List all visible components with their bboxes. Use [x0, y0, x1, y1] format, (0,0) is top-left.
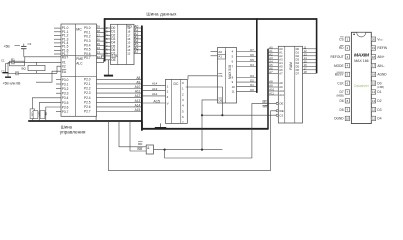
svg-text:P0.7: P0.7 — [84, 56, 91, 60]
wire address bus riser to RAM — [267, 49, 269, 130]
svg-text:A2: A2 — [269, 52, 273, 56]
svg-text:A5: A5 — [279, 64, 283, 68]
svg-text:14: 14 — [304, 56, 307, 60]
RAM pin CS — [276, 114, 278, 116]
svg-text:A0: A0 — [269, 45, 273, 49]
svg-text:A0: A0 — [279, 47, 283, 51]
svg-text:12: 12 — [127, 52, 131, 56]
svg-text:A2: A2 — [279, 54, 283, 58]
svg-text:P2.6: P2.6 — [84, 105, 91, 109]
ground under R1 — [3, 72, 9, 74]
svg-text:15: 15 — [304, 59, 307, 63]
MAX166 right pins — [371, 37, 387, 121]
wire X1 — [14, 61, 61, 63]
svg-text:17: 17 — [372, 64, 375, 68]
wire WR to gate — [130, 122, 146, 151]
svg-text:CS: CS — [339, 37, 343, 41]
svg-text:CLK: CLK — [337, 81, 344, 85]
svg-text:A1: A1 — [269, 49, 273, 53]
svg-text:управления: управления — [60, 130, 86, 135]
svg-text:A14: A14 — [135, 103, 141, 107]
svg-text:A4: A4 — [279, 61, 283, 65]
wire data bus drop right to RAM — [316, 18, 318, 73]
svg-text:A10: A10 — [269, 88, 274, 92]
svg-text:20: 20 — [372, 37, 375, 41]
svg-text:11: 11 — [232, 89, 235, 93]
svg-text:A3: A3 — [279, 57, 283, 61]
wire RD to gate — [119, 122, 146, 147]
svg-text:+5В: +5В — [4, 45, 11, 49]
MC port P0 pin labels P0.0-P0.7 — [84, 26, 91, 60]
svg-text:A15: A15 — [135, 108, 141, 112]
svg-text:P2.7: P2.7 — [84, 110, 91, 114]
svg-text:A8: A8 — [136, 76, 140, 80]
svg-text:D2: D2 — [377, 99, 381, 103]
svg-text:D7: D7 — [250, 48, 254, 52]
wires P0 to AD bus — [97, 28, 105, 58]
wire control bus horizontal — [28, 120, 142, 122]
RG data inputs D0-D7 — [111, 26, 115, 55]
svg-text:CS: CS — [218, 74, 222, 78]
svg-text:A12: A12 — [135, 94, 141, 98]
svg-text:A13: A13 — [135, 99, 141, 103]
svg-text:A5: A5 — [269, 63, 273, 67]
wire AD0-AD7 bus vertical — [104, 18, 106, 61]
svg-text:A7: A7 — [269, 70, 273, 74]
svg-text:WE: WE — [279, 109, 284, 113]
ground under DC — [160, 123, 162, 127]
svg-text:D6: D6 — [250, 53, 254, 57]
svg-text:A11: A11 — [135, 90, 141, 94]
wire EA select — [36, 71, 61, 82]
wire P3.4 to control bus — [32, 98, 61, 120]
svg-text:A9: A9 — [269, 84, 273, 88]
svg-text:P2.4: P2.4 — [84, 96, 91, 100]
svg-text:14: 14 — [372, 90, 375, 94]
svg-text:A8: A8 — [269, 80, 273, 84]
svg-text:D5: D5 — [340, 108, 344, 112]
wire reset node to RST — [24, 56, 61, 58]
pin 1 marker dot — [353, 34, 355, 36]
svg-text:P3.0: P3.0 — [62, 78, 69, 82]
DC outputs 0-7 — [182, 81, 184, 125]
svg-text:P2.3: P2.3 — [84, 91, 91, 95]
svg-text:A13: A13 — [152, 87, 158, 91]
svg-text:D7: D7 — [296, 71, 300, 75]
svg-text:MAXIM: MAXIM — [354, 53, 370, 59]
svg-text:OE: OE — [111, 58, 116, 62]
RAM data pins D0-D7 — [296, 45, 317, 75]
svg-text:D2: D2 — [296, 54, 300, 58]
svg-text:P3.2: P3.2 — [62, 87, 69, 91]
svg-text:A6: A6 — [269, 66, 273, 70]
svg-text:P3.4: P3.4 — [62, 96, 69, 100]
svg-text:OE: OE — [218, 98, 222, 102]
svg-text:A10: A10 — [279, 89, 284, 93]
svg-text:D0: D0 — [296, 47, 300, 51]
wire X2 — [18, 72, 57, 74]
svg-text:ALC: ALC — [76, 61, 83, 65]
signal label box 2 — [33, 111, 38, 119]
svg-text:DGND: DGND — [334, 117, 344, 121]
MAX508 data pins lower group — [232, 74, 257, 93]
svg-text:AIN–: AIN– — [377, 64, 384, 68]
wires P3 stubs — [56, 79, 61, 111]
svg-text:13: 13 — [372, 99, 375, 103]
svg-text:A7: A7 — [279, 71, 283, 75]
wires address lines into DC — [142, 84, 166, 86]
svg-text:P3.6: P3.6 — [62, 105, 69, 109]
svg-text:BUSY: BUSY — [335, 73, 345, 77]
svg-text:A14: A14 — [152, 82, 158, 86]
wire WR long to RAM WE — [108, 111, 276, 171]
wires RG outputs to address bus labels A0-A7 — [134, 25, 141, 54]
svg-text:P3.7: P3.7 — [62, 110, 69, 114]
svg-text:12: 12 — [304, 49, 307, 53]
svg-text:P2.1: P2.1 — [84, 82, 91, 86]
RAM pin WE — [276, 110, 278, 112]
svg-text:A12: A12 — [152, 92, 158, 96]
svg-text:D5: D5 — [296, 64, 300, 68]
svg-text:D2: D2 — [250, 79, 254, 83]
svg-text:Datasheet: Datasheet — [354, 84, 369, 88]
wire gate output to CS riser — [154, 149, 223, 151]
svg-text:(LSB): (LSB) — [377, 86, 384, 89]
wire P3.6 to control bus — [46, 107, 61, 120]
svg-text:REFOUT: REFOUT — [330, 55, 343, 59]
svg-text:PME: PME — [76, 57, 83, 61]
svg-text:MAX 166: MAX 166 — [354, 59, 368, 63]
signal label box 1 — [30, 109, 34, 119]
svg-text:P2.0: P2.0 — [84, 77, 91, 81]
wire DC out0 to MAX508 CS — [188, 76, 218, 80]
svg-text:A9: A9 — [136, 80, 140, 84]
MC port P3 pin labels P3.0-P3.7 — [62, 78, 69, 114]
svg-text:13: 13 — [304, 52, 307, 56]
wire ALE stub to control bus — [95, 116, 97, 121]
svg-text:DC: DC — [174, 82, 179, 86]
ADC MAX166 package — [351, 32, 371, 123]
svg-text:A10: A10 — [135, 85, 141, 89]
svg-text:OE: OE — [279, 102, 283, 106]
svg-text:D4: D4 — [377, 117, 381, 121]
svg-text:A0: A0 — [218, 50, 222, 54]
svg-text:A11: A11 — [279, 93, 284, 97]
svg-text:BQ: BQ — [22, 67, 27, 71]
svg-text:19: 19 — [372, 46, 375, 50]
svg-text:D7: D7 — [340, 90, 344, 94]
RG output pin numbers — [127, 26, 131, 55]
svg-text:MC: MC — [76, 28, 82, 32]
ground under RG — [107, 60, 109, 75]
svg-text:10: 10 — [232, 85, 236, 89]
svg-text:P3.3: P3.3 — [62, 92, 69, 96]
svg-text:11: 11 — [372, 117, 375, 121]
wire PME to OE — [97, 60, 111, 63]
junction dot — [164, 149, 166, 151]
svg-text:VDD: VDD — [377, 37, 383, 41]
svg-text:D0: D0 — [250, 88, 254, 92]
svg-text:18: 18 — [304, 70, 307, 74]
wire data bus drop to MAX508 — [256, 18, 258, 93]
MC port P1 pin labels P1.0-P1.7 — [62, 26, 69, 56]
wire MAX508 OE from gate area — [202, 100, 218, 150]
svg-text:CS: CS — [279, 113, 283, 117]
MC port P2 pin labels P2.0-P2.7 — [84, 77, 91, 113]
svg-text:RD: RD — [339, 46, 344, 50]
svg-text:D4: D4 — [296, 61, 300, 65]
latch RG body — [111, 24, 135, 64]
svg-text:C1: C1 — [1, 59, 5, 63]
svg-text:10: 10 — [346, 117, 349, 121]
wire CS select — [186, 87, 223, 115]
svg-text:D1: D1 — [296, 50, 300, 54]
svg-text:V: V — [167, 102, 169, 106]
MAX508 data pins upper group — [232, 48, 257, 69]
AND gate body — [146, 145, 153, 154]
wire address bus vertical — [141, 26, 143, 131]
svg-text:12: 12 — [372, 108, 375, 112]
svg-text:A4: A4 — [269, 59, 273, 63]
svg-text:A15: A15 — [153, 99, 160, 103]
svg-text:D5: D5 — [250, 58, 254, 62]
RG input pin numbers — [105, 26, 111, 55]
svg-text:A11: A11 — [269, 92, 274, 96]
svg-text:WR: WR — [137, 147, 143, 151]
wire address bus bottom run — [142, 128, 268, 130]
svg-text:D3: D3 — [296, 57, 300, 61]
svg-text:A6: A6 — [279, 68, 283, 72]
svg-text:C2: C2 — [1, 69, 5, 73]
wire P3.5 to control bus — [39, 102, 61, 120]
svg-text:T0: T0 — [44, 112, 48, 116]
svg-text:D3: D3 — [250, 74, 254, 78]
MC P0 pin numbers 39-32 — [97, 25, 101, 59]
decoder DC body — [166, 79, 188, 123]
svg-text:Шина данных: Шина данных — [146, 11, 177, 16]
svg-text:X2: X2 — [62, 65, 66, 69]
svg-text:RAM: RAM — [289, 62, 293, 70]
svg-text:D1: D1 — [377, 90, 381, 94]
wire data bus horizontal — [104, 18, 317, 20]
wires P2 to address bus with labels A8-A15 — [97, 76, 142, 112]
svg-text:A1: A1 — [279, 50, 283, 54]
ground for oscillator — [7, 62, 9, 77]
svg-text:P2.2: P2.2 — [84, 87, 91, 91]
svg-text:MODE: MODE — [334, 64, 344, 68]
svg-text:P3.5: P3.5 — [62, 101, 69, 105]
svg-text:RST: RST — [62, 55, 68, 59]
wires P1 stubs — [54, 28, 61, 54]
svg-text:P3.1: P3.1 — [62, 82, 69, 86]
svg-text:17: 17 — [304, 66, 307, 70]
svg-text:D3: D3 — [377, 108, 381, 112]
svg-text:A1: A1 — [218, 55, 222, 59]
memory RAM body — [278, 46, 302, 123]
svg-text:11: 11 — [304, 45, 307, 49]
svg-text:18: 18 — [372, 55, 375, 59]
svg-text:RD: RD — [138, 142, 143, 146]
signal label box 3 — [40, 111, 45, 119]
svg-text:16: 16 — [304, 63, 307, 67]
wire ALE to STB — [97, 56, 111, 58]
svg-text:15: 15 — [372, 81, 375, 85]
svg-text:AIN+: AIN+ — [377, 55, 384, 59]
svg-text:16: 16 — [372, 73, 375, 77]
microcontroller MC body — [61, 24, 97, 116]
svg-text:AGND: AGND — [377, 73, 387, 77]
svg-text:D6: D6 — [340, 99, 344, 103]
svg-text:A3: A3 — [269, 56, 273, 60]
svg-text:C3: C3 — [28, 42, 32, 46]
svg-text:A9: A9 — [279, 85, 283, 89]
RAM pin OE — [276, 102, 278, 104]
svg-text:+5В или 0В: +5В или 0В — [3, 81, 22, 85]
svg-text:D1: D1 — [250, 83, 254, 87]
svg-text:A8: A8 — [279, 81, 283, 85]
wire junction to OE path — [165, 103, 277, 158]
svg-text:D6: D6 — [296, 68, 300, 72]
MAX166 left pins — [330, 37, 349, 121]
svg-text:(MSB): (MSB) — [337, 95, 344, 98]
svg-text:P2.5: P2.5 — [84, 100, 91, 104]
svg-text:D4: D4 — [250, 63, 254, 67]
svg-text:A7: A7 — [134, 50, 138, 54]
RAM address inputs A0-A11 — [268, 45, 285, 97]
svg-text:D0: D0 — [377, 81, 381, 85]
svg-text:REFIN: REFIN — [377, 46, 387, 50]
DAC MAX508 body — [218, 48, 237, 104]
